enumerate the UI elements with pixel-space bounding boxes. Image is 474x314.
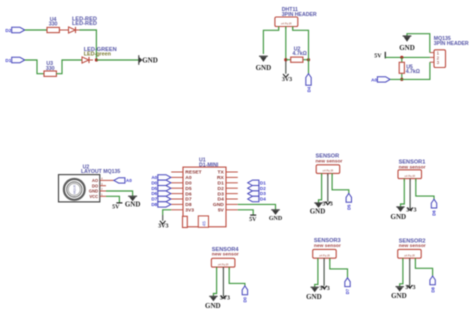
- svg-text:GND: GND: [256, 64, 272, 72]
- svg-text:4.7kΩ: 4.7kΩ: [293, 51, 307, 57]
- svg-text:o4 Pq (R: o4 Pq (R: [218, 262, 229, 266]
- svg-text:D6: D6: [151, 191, 157, 196]
- port D7 (SENSOR3): [345, 278, 350, 295]
- svg-text:D4: D4: [218, 197, 225, 203]
- svg-text:4.7kΩ: 4.7kΩ: [406, 69, 420, 75]
- supply 3V3 (SENSOR2): [405, 285, 415, 291]
- wire SENSOR2 gnd: [400, 258, 403, 286]
- wire SENSOR3 data to port: [330, 258, 348, 278]
- wire SENSOR3 3v3: [323, 258, 325, 286]
- supply 3V3 (DHT11): [282, 74, 292, 83]
- wire junction A to GND: [96, 59, 138, 61]
- wire SENSOR4 data to port: [229, 267, 245, 286]
- svg-text:D1: D1: [218, 181, 225, 187]
- wire SENSOR3 gnd: [315, 258, 318, 287]
- svg-text:D0: D0: [185, 181, 192, 187]
- svg-text:A0: A0: [126, 178, 132, 183]
- sensor SENSOR2: [398, 238, 426, 258]
- pin stubs SENSOR3: [318, 258, 330, 261]
- svg-text:3V3: 3V3: [185, 208, 194, 214]
- svg-text:D5: D5: [151, 186, 157, 191]
- svg-text:D7: D7: [185, 197, 192, 203]
- svg-text:3V3: 3V3: [282, 77, 292, 83]
- resistor U3: [44, 61, 56, 77]
- ground GND (MQ135): [399, 36, 415, 52]
- wire 5V to MQ135 pin2: [385, 56, 430, 58]
- svg-text:VCC: VCC: [89, 194, 98, 199]
- ground GND (DHT11): [256, 56, 272, 72]
- port D0 (to D1-MINI): [151, 180, 171, 185]
- pin stubs SENSOR1: [404, 179, 416, 182]
- svg-text:D8: D8: [185, 202, 192, 208]
- wire SENSOR1 gnd: [401, 179, 405, 207]
- port D5 (SENSOR): [346, 193, 351, 210]
- LED LED-RED D3: [69, 16, 97, 33]
- wire DHT11 pin3 to port: [293, 27, 309, 74]
- port A0 (to D1-MINI): [151, 175, 171, 180]
- svg-text:D4: D4: [306, 86, 311, 92]
- port D2 (from D1-MINI): [248, 186, 267, 191]
- LED LED-GREEN: [82, 47, 117, 63]
- svg-text:GND: GND: [142, 57, 158, 65]
- svg-text:3V3: 3V3: [322, 202, 332, 208]
- port D3 (from D1-MINI): [248, 191, 267, 196]
- resistor U5 4.7k (vertical): [399, 57, 420, 79]
- svg-text:GND: GND: [391, 213, 407, 221]
- svg-text:o4 Pq (R: o4 Pq (R: [323, 169, 334, 173]
- ground GND (SENSOR4): [205, 296, 221, 310]
- wire A0 to MQ135 pin3: [390, 62, 430, 79]
- svg-text:GND: GND: [89, 189, 98, 194]
- svg-text:D2: D2: [218, 186, 225, 192]
- svg-text:AO: AO: [92, 178, 99, 183]
- junction D: [400, 56, 403, 59]
- wire SENSOR2 data to port: [415, 258, 432, 276]
- svg-text:new sensor: new sensor: [314, 243, 341, 249]
- supply 3V3 (D1-MINI): [158, 210, 171, 230]
- svg-text:new sensor: new sensor: [212, 252, 239, 258]
- port A0 (top right): [371, 77, 390, 83]
- wire SENSOR4 gnd: [213, 267, 216, 296]
- svg-text:GND: GND: [269, 216, 283, 222]
- svg-text:A0: A0: [371, 78, 377, 83]
- pin stubs SENSOR: [322, 173, 333, 176]
- wire SENSOR gnd: [319, 173, 322, 203]
- svg-text:GND: GND: [310, 208, 326, 216]
- svg-text:5V: 5V: [374, 54, 382, 60]
- port D6 (to D1-MINI): [151, 191, 171, 196]
- svg-text:GND: GND: [391, 292, 407, 300]
- ground GND (SENSOR2): [391, 287, 407, 300]
- supply 3V3 (SENSOR): [322, 202, 332, 208]
- svg-text:D5: D5: [185, 186, 192, 192]
- resistor U2 4.7k: [286, 47, 309, 63]
- wire R U4 to LED1: [59, 29, 68, 31]
- svg-text:A0: A0: [151, 175, 157, 180]
- svg-text:MQ135: MQ135: [73, 184, 77, 194]
- supply 3V3 (SENSOR4): [220, 296, 230, 302]
- wire D2 to R U4: [25, 29, 47, 31]
- wire SENSOR 3v3: [327, 173, 329, 201]
- svg-text:D3: D3: [260, 191, 266, 196]
- svg-text:3V3: 3V3: [220, 296, 230, 302]
- svg-text:D5: D5: [347, 204, 352, 210]
- sensor SENSOR3: [313, 238, 341, 258]
- supply 3V3 (SENSOR1): [406, 207, 416, 213]
- ground GND (SENSOR): [310, 203, 326, 216]
- svg-text:330: 330: [49, 22, 58, 28]
- wire SENSOR1 3v3: [409, 179, 411, 208]
- sensor SENSOR4: [211, 247, 239, 267]
- svg-text:D7: D7: [151, 197, 157, 202]
- svg-text:D0: D0: [243, 296, 248, 302]
- svg-text:45: 45: [201, 221, 206, 227]
- svg-text:5V: 5V: [218, 208, 225, 214]
- pin stubs SENSOR2: [403, 258, 416, 261]
- svg-text:GND: GND: [125, 200, 141, 208]
- port D1: [5, 57, 24, 63]
- supply 5V (module MQ135): [106, 196, 122, 210]
- supply 5V (MQ135): [374, 52, 385, 60]
- wire D1 to R U3: [25, 60, 44, 74]
- wire R U3 to LED2: [56, 60, 82, 74]
- ground GND (SENSOR1): [391, 207, 407, 221]
- svg-text:o4 Pq (R: o4 Pq (R: [319, 253, 330, 257]
- svg-text:D8: D8: [430, 286, 435, 292]
- port D2: [5, 27, 24, 33]
- port D6 (SENSOR1): [431, 199, 436, 216]
- svg-text:3PIN HEADER: 3PIN HEADER: [434, 41, 469, 47]
- svg-text:3V3: 3V3: [405, 285, 415, 291]
- usb connector box (D1-MINI): [183, 216, 188, 227]
- ground GND (D1-MINI): [238, 204, 283, 221]
- wire SENSOR data to port: [332, 173, 349, 193]
- svg-text:D7: D7: [345, 288, 350, 294]
- svg-text:D1: D1: [260, 180, 266, 185]
- port D8 (to D1-MINI): [151, 202, 171, 207]
- svg-text:new sensor: new sensor: [399, 243, 426, 249]
- svg-text:3V3: 3V3: [158, 223, 168, 229]
- wire SENSOR2 3v3: [409, 258, 411, 285]
- IC U1 D1-MINI: [171, 158, 238, 227]
- ground GND (LED circuit): [139, 55, 158, 65]
- svg-text:D4: D4: [260, 197, 266, 202]
- port D5 (to D1-MINI): [151, 186, 171, 191]
- wire MQ135 pin1 to GND: [407, 34, 430, 53]
- svg-text:D0: D0: [151, 180, 157, 185]
- pin stubs DHT11: [279, 27, 293, 30]
- header DHT11: [275, 7, 317, 26]
- svg-text:A0: A0: [185, 175, 192, 181]
- svg-text:GND: GND: [213, 202, 224, 208]
- wire DHT11 pin2 to 3V3: [285, 27, 287, 60]
- supply 3V3 (SENSOR3): [319, 286, 329, 292]
- wire LED1 to junction A: [80, 30, 97, 60]
- svg-text:GND: GND: [399, 44, 415, 52]
- module U2 LAYOUT MQ135: [59, 165, 121, 202]
- svg-text:D2: D2: [260, 186, 266, 191]
- wire DHT11 pin1 to GND: [263, 27, 278, 55]
- svg-text:5V: 5V: [249, 217, 257, 223]
- svg-text:GND: GND: [306, 293, 322, 301]
- ground GND (module MQ135): [106, 191, 140, 208]
- svg-text:5V: 5V: [112, 204, 120, 210]
- logo box (D1-MINI): [198, 216, 208, 227]
- svg-text:LED-green: LED-green: [84, 52, 111, 58]
- port D8 (SENSOR2): [430, 276, 435, 293]
- svg-text:o4 Pq (R: o4 Pq (R: [404, 174, 415, 178]
- port D4 (from D1-MINI): [248, 196, 267, 201]
- port D1 (from D1-MINI): [248, 180, 267, 185]
- svg-text:D6: D6: [432, 210, 437, 216]
- svg-text:RESET: RESET: [185, 170, 201, 176]
- junction A: [95, 58, 98, 61]
- junction E: [400, 78, 403, 81]
- svg-text:D1: D1: [5, 58, 11, 63]
- sensor SENSOR: [316, 154, 343, 174]
- wire SENSOR1 data to port: [416, 179, 434, 200]
- svg-text:D2: D2: [5, 28, 11, 33]
- sensor SENSOR1: [398, 159, 426, 178]
- svg-text:o4 Pq (R: o4 Pq (R: [281, 22, 292, 26]
- wire SENSOR4 3v3: [222, 267, 224, 295]
- port D7 (to D1-MINI): [151, 196, 171, 201]
- svg-text:D6: D6: [185, 191, 192, 197]
- svg-text:LED-RED: LED-RED: [72, 21, 97, 27]
- port D0 (SENSOR4): [242, 286, 247, 303]
- svg-text:3V3: 3V3: [319, 286, 329, 292]
- junction C: [307, 58, 310, 61]
- header MQ135 (top right): [430, 36, 469, 68]
- svg-text:TX: TX: [218, 170, 225, 176]
- port A0 (module MQ135): [106, 178, 132, 184]
- junction B: [284, 58, 287, 61]
- svg-text:RX: RX: [217, 175, 225, 181]
- supply 5V (D1-MINI): [238, 210, 257, 223]
- svg-text:D8: D8: [151, 202, 157, 207]
- pin stubs SENSOR4: [217, 267, 230, 270]
- svg-text:new sensor: new sensor: [316, 158, 343, 164]
- svg-text:GND: GND: [205, 302, 221, 310]
- resistor U4: [47, 17, 59, 32]
- svg-text:3V3: 3V3: [406, 207, 416, 213]
- ground GND (SENSOR3): [306, 287, 322, 301]
- svg-text:D3: D3: [218, 191, 225, 197]
- svg-text:DO: DO: [92, 183, 99, 188]
- svg-text:o4 Pq (R: o4 Pq (R: [404, 253, 415, 257]
- port D4 (DHT11 data): [306, 74, 312, 93]
